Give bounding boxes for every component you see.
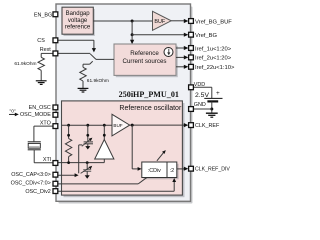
svg-text:CS: CS xyxy=(37,38,45,44)
resistor R3 (oscillator) xyxy=(65,125,71,162)
bandgap voltage reference box U1 xyxy=(62,7,95,36)
wire battery to ground xyxy=(211,102,213,113)
wire divider output to CLK_REF_DIV pin xyxy=(177,167,189,171)
resistor R1 61.9kOhm external xyxy=(14,57,44,70)
svg-text:BUF: BUF xyxy=(154,19,165,25)
variable arrow over CDiv xyxy=(157,150,166,161)
pin EN_OSC xyxy=(53,105,58,110)
chip block 250iHP_PMU_01 xyxy=(56,4,193,204)
svg-text:OSC_MODE: OSC_MODE xyxy=(20,112,51,118)
pin XTI xyxy=(53,161,58,166)
svg-text:Vref_BG: Vref_BG xyxy=(195,33,218,39)
wire Rext pin to external resistor xyxy=(41,53,53,57)
pin CLK_REF xyxy=(189,123,194,128)
pin XTO xyxy=(53,124,58,129)
pin Vref_BG_BUF xyxy=(189,19,194,24)
wire Iref_22u output xyxy=(176,65,188,69)
node cap1 top xyxy=(86,124,89,127)
svg-text:Iref_1u<1:20>: Iref_1u<1:20> xyxy=(195,46,232,52)
divider :2 box xyxy=(167,162,179,179)
svg-text:Reference: Reference xyxy=(130,50,159,57)
svg-text:XTI: XTI xyxy=(43,157,51,163)
wire GND pin to junction xyxy=(194,108,212,110)
pin Vref_BG xyxy=(189,32,194,37)
wire external resistor to ground xyxy=(40,70,42,80)
wire Vref_BG to pin xyxy=(132,33,188,37)
wire internal resistor to ground xyxy=(82,81,84,88)
wire BUF output to Vref_BG_BUF pin xyxy=(171,19,188,23)
svg-text:VDD: VDD xyxy=(194,82,205,88)
reference current sources box U2 xyxy=(114,44,178,77)
svg-text:Current sources: Current sources xyxy=(122,58,166,65)
svg-text:OSC_Div2: OSC_Div2 xyxy=(25,189,50,195)
wire OSC_CDiv control to CDiv box xyxy=(57,178,147,184)
pin OSC_MODE xyxy=(53,112,58,117)
node GND junction xyxy=(210,108,213,111)
reference oscillator box xyxy=(62,101,185,197)
ground (external resistor) xyxy=(36,81,47,85)
svg-text:Iref_22u<1:10>: Iref_22u<1:10> xyxy=(195,65,235,71)
wire Rext pin to switch contact xyxy=(57,52,90,54)
pin Iref_22u xyxy=(189,64,194,69)
svg-text:EN_BG: EN_BG xyxy=(34,13,52,19)
current source symbol icon xyxy=(164,48,173,57)
svg-text:GND: GND xyxy=(194,102,206,108)
pin VDD xyxy=(189,85,194,90)
switch SW1 blade xyxy=(90,54,96,60)
svg-text:OSC_CAP<3:0>: OSC_CAP<3:0> xyxy=(11,172,51,178)
wire Iref_2u output xyxy=(176,55,188,59)
node junction on bandgap output xyxy=(131,20,134,23)
wire XTO rail to BUF2 xyxy=(62,124,113,126)
wire BUF2 output to CLK_REF pin xyxy=(130,123,189,127)
pin OSC_CDiv xyxy=(53,181,58,186)
pin CLK_REF_DIV xyxy=(189,166,194,171)
pin Iref_2u xyxy=(189,55,194,60)
svg-text:61.9kOhm: 61.9kOhm xyxy=(14,61,36,67)
svg-text::2: :2 xyxy=(170,168,175,174)
pin OSC_CAP xyxy=(53,172,58,177)
node cap2 top xyxy=(86,161,89,164)
svg-text:BUF: BUF xyxy=(113,123,122,128)
svg-text::CDiv: :CDiv xyxy=(148,168,161,174)
wire OSC_Div2 control to :2 box xyxy=(57,178,176,191)
svg-text:CLK_REF: CLK_REF xyxy=(195,123,220,129)
node amp top xyxy=(103,124,106,127)
capacitor C2 variable xyxy=(81,163,93,179)
pin Iref_1u xyxy=(189,46,194,51)
svg-text:voltage: voltage xyxy=(68,18,88,24)
wire switch common to current sources box xyxy=(96,58,114,60)
switch lower contact xyxy=(83,61,93,67)
crystal X1 xyxy=(28,142,41,150)
wire bandgap output to BUF xyxy=(93,20,152,22)
pin EN_BG xyxy=(53,12,58,17)
wire junction down to divider xyxy=(132,125,141,171)
svg-text:Reference oscillator: Reference oscillator xyxy=(119,105,182,112)
ground (supply) xyxy=(206,113,218,117)
svg-text:reference: reference xyxy=(65,24,91,30)
svg-text:+: + xyxy=(216,90,220,97)
wire Iref_1u output xyxy=(176,46,188,50)
svg-text:XTO: XTO xyxy=(40,120,51,126)
wire junction down to Vref_BG node xyxy=(131,21,133,35)
wire OSC_CAP control xyxy=(57,145,82,177)
node CLK junction xyxy=(131,124,134,127)
svg-text:61.9kOhm: 61.9kOhm xyxy=(87,78,109,84)
capacitor C1 variable xyxy=(82,125,93,149)
resistor R2 61.9kOhm internal xyxy=(80,67,109,84)
wire CS control to switch xyxy=(57,40,96,52)
op-amp buffer BUF2 (oscillator) xyxy=(112,114,130,136)
divider CDiv box xyxy=(142,162,169,179)
ground (internal resistor) xyxy=(78,88,89,92)
node osc resistor top xyxy=(67,124,70,127)
wire crystal to XTI xyxy=(34,150,58,163)
wire XTI rail (middle rail) xyxy=(58,162,104,164)
battery V1 2.5V xyxy=(195,90,223,101)
svg-text:Rext: Rext xyxy=(40,47,52,53)
wire VDD to battery xyxy=(194,87,212,98)
svg-text:CLK_REF_DIV: CLK_REF_DIV xyxy=(195,167,230,173)
node resistor bottom xyxy=(67,161,70,164)
svg-text:EN_OSC: EN_OSC xyxy=(29,105,51,111)
pin OSC_Div2 xyxy=(53,189,58,194)
op-amp buffer BUF (bandgap) xyxy=(153,11,172,30)
svg-text:250iHP_PMU_01: 250iHP_PMU_01 xyxy=(119,90,179,99)
pin GND xyxy=(189,107,194,112)
svg-text:2.5V: 2.5V xyxy=(195,92,209,99)
svg-text:Vref_BG_BUF: Vref_BG_BUF xyxy=(195,19,232,25)
wire XTO to crystal xyxy=(34,126,54,141)
node Vref_BG junction xyxy=(131,33,134,36)
svg-text:OSC_CDiv<7:0>: OSC_CDiv<7:0> xyxy=(11,181,51,187)
svg-text:Iref_2u<1:20>: Iref_2u<1:20> xyxy=(195,56,232,62)
wire junction down into current sources box xyxy=(130,35,134,45)
pin Rext xyxy=(53,51,58,56)
annotation "0" to OSC_MODE xyxy=(9,108,19,116)
pin CS xyxy=(53,38,58,43)
op-amp A1 (oscillator amplifier) xyxy=(95,125,114,162)
svg-text:Bandgap: Bandgap xyxy=(66,11,91,17)
